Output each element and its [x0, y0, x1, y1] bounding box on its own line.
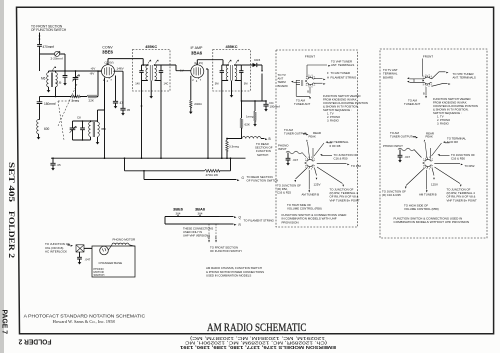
phono motor coil [108, 243, 135, 250]
label to terminal 6 right box [432, 137, 467, 157]
svg-text:1: 1 [305, 159, 306, 161]
wire 180mmf down [39, 104, 41, 120]
svg-text:A PHOTOFACT STANDARD NOTATION: A PHOTOFACT STANDARD NOTATION SCHEMATIC [24, 313, 146, 318]
label to junction r52 right box [382, 187, 407, 198]
svg-text:8: 8 [423, 84, 424, 86]
svg-text:3BE6: 3BE6 [102, 50, 114, 55]
switch star A1 [305, 75, 315, 89]
coils and caps of 455KC [139, 59, 163, 80]
switch star B1 [422, 74, 432, 88]
label to terminal 6 left box [314, 140, 349, 156]
wire from function switch down [39, 33, 41, 45]
svg-text:USED IN COMBINATION MODELS: USED IN COMBINATION MODELS [206, 274, 251, 278]
voltage 1V [180, 69, 185, 73]
svg-text:COUNTER-CLOCKWISE POSITION: COUNTER-CLOCKWISE POSITION [323, 101, 368, 105]
bus capacitor .05 [50, 157, 61, 170]
label G to rear section [242, 175, 279, 183]
svg-text:3: 3 [429, 157, 430, 159]
label REAR right box [426, 132, 434, 136]
svg-text:BOARD: BOARD [383, 75, 393, 79]
svg-text:3. RADIO: 3. RADIO [327, 119, 339, 123]
label to vhf tuner right box [453, 72, 476, 80]
T2 output wire [241, 64, 252, 66]
wire ant secondary down [55, 87, 57, 97]
coils and caps of 455KC [220, 59, 244, 80]
svg-text:455KC: 455KC [145, 45, 157, 49]
svg-text:3&4: 3&4 [198, 211, 203, 215]
tube V1 down wire [104, 78, 106, 159]
filament dashed drops [208, 224, 218, 243]
svg-text:TUNER OUTPUT: TUNER OUTPUT [390, 135, 413, 139]
svg-text:.05: .05 [57, 163, 61, 167]
filament line R [219, 223, 242, 227]
antenna transformer core [51, 73, 52, 88]
svg-text:(12.2V): (12.2V) [194, 61, 203, 65]
wire left bus down [39, 97, 41, 102]
svg-text:3M: 3M [244, 82, 248, 86]
svg-text:2: 2 [308, 75, 309, 77]
svg-text:1. TV: 1. TV [327, 112, 334, 116]
label am radio chassis note [206, 266, 264, 278]
bus line y171 [124, 157, 232, 170]
label phono input right box [383, 144, 403, 148]
svg-text:6: 6 [312, 87, 313, 89]
label PEAK left box [306, 135, 316, 159]
svg-text:3: 3 [429, 74, 430, 76]
svg-text:3M: 3M [215, 82, 219, 86]
svg-text:VOLUME CONTROL (R58): VOLUME CONTROL (R58) [287, 207, 322, 211]
svg-text:TUNER ANT: TUNER ANT [294, 102, 310, 106]
label FRONT right box [423, 55, 433, 59]
label 125V left box [314, 178, 321, 187]
svg-text:2. PHONO: 2. PHONO [437, 118, 450, 122]
svg-text:TO FILAMENT STRING: TO FILAMENT STRING [244, 218, 275, 222]
svg-text:& SHOWN IN TV POSITION.: & SHOWN IN TV POSITION. [433, 108, 469, 112]
phono motor circle [100, 246, 109, 255]
label to rear section of function switch [255, 142, 273, 157]
svg-text:B: B [423, 92, 425, 96]
label to vhf tuner left box [331, 59, 354, 67]
diode CR3 [253, 58, 263, 72]
right switch dashed box [380, 49, 487, 238]
wire V1 plate to T1 [108, 59, 144, 66]
svg-text:TO AM TUNER: TO AM TUNER [331, 71, 350, 75]
wire to R52 left box [317, 164, 362, 168]
label to front section of function switch [31, 25, 67, 33]
svg-text:2: 2 [425, 74, 426, 76]
T2 center ground [230, 94, 234, 98]
label REAR left box [313, 131, 321, 135]
svg-text:FOLDER 2: FOLDER 2 [7, 211, 16, 258]
svg-text:7: 7 [308, 169, 309, 171]
label function switch with uhf [282, 213, 348, 225]
switch star A2 [305, 157, 315, 171]
antenna slug arrow [52, 66, 56, 71]
label phono motor [113, 238, 136, 242]
svg-text:6 OF R8: 6 OF R8 [447, 140, 458, 144]
osc gang capacitor B [70, 121, 77, 140]
star A2 down wires [296, 167, 343, 190]
svg-text:B: B [269, 137, 271, 141]
svg-text:(R) C16 & R25: (R) C16 & R25 [382, 193, 401, 197]
trimmer capacitor 2-20mmf [51, 51, 63, 61]
svg-text:FOLDER 2: FOLDER 2 [19, 338, 52, 347]
svg-text:OF FUNCTION SWITCH: OF FUNCTION SWITCH [247, 179, 279, 183]
svg-text:C16 & R50: C16 & R50 [334, 157, 348, 161]
switch star B2 [423, 157, 433, 171]
label to junction r52 left box [277, 180, 301, 195]
label to front section 2 [210, 246, 242, 254]
label to tv ant right box [383, 68, 398, 79]
label phono motor switch [94, 267, 105, 277]
svg-text:3. RADIO: 3. RADIO [437, 122, 449, 126]
avc bus wire y96.5 [40, 96, 99, 98]
wire star A1 to front [306, 65, 308, 77]
label to am tuner output left box [284, 128, 309, 136]
ground below coil 600 [37, 120, 41, 140]
star B1 arrows to tv ant [407, 77, 424, 82]
cap 047 left box [286, 153, 299, 166]
ground below ant primary [47, 87, 51, 93]
svg-text:PROVISION: PROVISION [282, 220, 299, 224]
svg-text:AM TUNER B: AM TUNER B [419, 193, 437, 197]
svg-text:TO R52: TO R52 [351, 164, 361, 168]
svg-text:1: 1 [423, 159, 424, 161]
svg-text:AC INTERLOCK: AC INTERLOCK [45, 250, 67, 254]
svg-text:(6.8): (6.8) [56, 81, 62, 85]
svg-text:FILAMENT STRING: FILAMENT STRING [331, 76, 357, 80]
antenna transformer secondary coil [56, 73, 62, 87]
det wire down [242, 74, 267, 102]
svg-text:FUNCTION SWITCH VIEWED: FUNCTION SWITCH VIEWED [433, 97, 470, 101]
svg-text:PAGE 7: PAGE 7 [1, 310, 10, 335]
osc wires top [73, 120, 98, 122]
svg-text:62K: 62K [245, 123, 251, 127]
svg-text:FROM KNOB END IN MAX.: FROM KNOB END IN MAX. [433, 101, 467, 105]
svg-text:3&4: 3&4 [176, 211, 181, 215]
label 3BE6 filament [173, 207, 184, 216]
svg-text:SWITCH: SWITCH [257, 153, 268, 157]
wire star A2 up [312, 148, 314, 158]
star B1 down wire B [423, 87, 427, 98]
left switch dashed box [276, 50, 358, 227]
fixed capacitor at ant [63, 71, 68, 86]
osc transformer secondary coil [98, 122, 107, 136]
tube V1 pin numbers [103, 79, 112, 83]
V1 cathode capacitor .05 [114, 71, 131, 115]
voltage -6V [91, 67, 97, 71]
svg-text:455KC: 455KC [226, 45, 238, 49]
label 3BA6 filament [195, 207, 206, 216]
V2 plate wire to T2 [197, 60, 223, 65]
svg-text:6: 6 [311, 169, 312, 171]
svg-text:CR3: CR3 [254, 58, 260, 62]
svg-text:1. TV: 1. TV [437, 115, 444, 119]
shielded cable left box [286, 151, 307, 157]
svg-text:22K: 22K [89, 98, 95, 102]
svg-text:ANT. TERMINALS: ANT. TERMINALS [331, 63, 354, 67]
svg-text:SWITCH SEQUENCE :: SWITCH SEQUENCE : [433, 111, 462, 115]
voltage 146V [117, 67, 125, 71]
label FRONT left box [305, 55, 315, 59]
changer base box [92, 246, 135, 277]
left box viewed text [323, 94, 368, 123]
svg-text:B: B [215, 236, 217, 240]
wire cap down to coil [39, 46, 41, 71]
svg-text:470Ω 1W: 470Ω 1W [206, 173, 219, 177]
voltage -8V [90, 72, 96, 76]
label 125V right box [431, 178, 438, 187]
svg-text:EMERSON MODELS 1376, 1377, 138: EMERSON MODELS 1376, 1377, 1380, 1389, 1… [179, 345, 336, 350]
T1 center ground [149, 95, 153, 99]
avc resistor 3.3meg [226, 138, 240, 159]
shielded cable right box [398, 148, 422, 157]
svg-text:(12.6V): (12.6V) [104, 60, 113, 64]
svg-text:H: H [327, 76, 329, 80]
label to junction ac interlock [45, 242, 70, 254]
resistor 2meg [71, 95, 80, 102]
svg-text:AM RADIO SCHEMATIC: AM RADIO SCHEMATIC [207, 322, 307, 334]
avc to grid wire [55, 70, 99, 97]
osc transformer primary coil [89, 122, 91, 136]
V2 grid resistor 240 [189, 76, 202, 114]
svg-text:3BA6: 3BA6 [195, 207, 206, 212]
label these connections [183, 227, 213, 238]
T1 bottom wires [135, 81, 168, 159]
svg-text:4: 4 [431, 76, 432, 78]
svg-text:3: 3 [312, 75, 313, 77]
svg-text:CHANGER BASE: CHANGER BASE [99, 261, 123, 265]
main bus y158 [51, 157, 246, 159]
svg-text:7: 7 [308, 87, 309, 89]
svg-text:INPUT: INPUT [278, 147, 287, 151]
svg-text:.047: .047 [405, 155, 411, 159]
star A1 down wire B [296, 84, 311, 99]
T1 output wire [161, 65, 191, 71]
svg-text:VHF TUNER B+ POINT: VHF TUNER B+ POINT [447, 198, 477, 202]
label to am tuner output right box [390, 131, 418, 139]
svg-text:3BE6: 3BE6 [173, 207, 184, 212]
right box viewed text [433, 97, 478, 126]
avc resistor 62K [240, 100, 251, 138]
label function switch without uhf [394, 216, 470, 224]
label to am tuner ant right box [404, 99, 420, 107]
svg-text:C16 & R25: C16 & R25 [277, 191, 291, 195]
svg-text:4: 4 [314, 77, 315, 79]
svg-text:1: 1 [423, 76, 424, 78]
wire V1 grid [98, 70, 102, 72]
osc wires bottom [73, 137, 100, 145]
svg-text:2meg: 2meg [72, 98, 80, 102]
star B1 arrows to vhf [432, 72, 451, 87]
svg-text:100mmf: 100mmf [270, 104, 281, 108]
svg-text:140: 140 [135, 82, 140, 86]
label to junction c16 right box [438, 153, 476, 161]
svg-text:.047: .047 [85, 258, 91, 262]
osc top to tube wire [98, 78, 105, 122]
svg-text:SWITCH: SWITCH [94, 273, 105, 277]
label to high side left box [287, 203, 322, 211]
label to junction r52 t4 left box [330, 185, 360, 203]
svg-text:SET 405: SET 405 [7, 162, 16, 202]
label to junction r52 t4 right box [447, 185, 477, 203]
capacitor 180mmf [37, 102, 56, 106]
svg-text:350: 350 [101, 127, 106, 131]
svg-text:146V: 146V [117, 67, 125, 71]
star A1 arrow F am tuner [314, 71, 350, 80]
svg-text:TUNER ANT: TUNER ANT [404, 102, 420, 106]
svg-text:OF FUNCTION SWITCH: OF FUNCTION SWITCH [31, 28, 67, 32]
oscillator padder coil 600 [37, 120, 50, 134]
svg-text:4: 4 [314, 159, 315, 161]
capacitor 047 phono [77, 257, 91, 264]
svg-text:REAR: REAR [313, 131, 321, 135]
svg-text:IF AMP: IF AMP [191, 46, 203, 50]
svg-text:TO R52: TO R52 [465, 164, 475, 168]
svg-text:(Ch. 120289R, MC, 120289M, MC,: (Ch. 120289R, MC, 120289M, MC, 120290H, … [185, 340, 327, 345]
svg-text:COUNTER-CLOCKWISE POSITION: COUNTER-CLOCKWISE POSITION [433, 104, 478, 108]
svg-text:OF FUNCTION SWITCH: OF FUNCTION SWITCH [210, 249, 242, 253]
svg-text:120291M, MC, 120384M, MC, 1203: 120291M, MC, 120384M, MC, 120387M, MC) [189, 336, 325, 341]
svg-text:FRONT: FRONT [305, 55, 315, 59]
svg-text:6: 6 [429, 169, 430, 171]
resistor 22K [87, 95, 97, 102]
svg-text:FRONT: FRONT [423, 55, 433, 59]
svg-text:2. PHONO: 2. PHONO [327, 115, 340, 119]
svg-text:PEAK: PEAK [426, 135, 434, 139]
svg-text:.05: .05 [126, 108, 130, 112]
tube V1 CONV 3BE6 [102, 46, 115, 79]
svg-text:COMBINATION MODELS WITHOUT UHF: COMBINATION MODELS WITHOUT UHF PROVISION [394, 220, 470, 224]
svg-text:C16 & R50: C16 & R50 [451, 157, 465, 161]
svg-text:125V: 125V [314, 182, 321, 186]
det resistor 1meg [246, 100, 257, 126]
svg-text:SWITCH SEQUENCE :: SWITCH SEQUENCE : [323, 108, 352, 112]
label to am tuner ant left box [294, 99, 310, 107]
svg-text:8: 8 [306, 85, 307, 87]
osc dashed outline [58, 101, 77, 140]
gang dashed link [58, 84, 77, 126]
label to filament string [244, 218, 275, 222]
svg-text:VOLUME CONTROL (R58): VOLUME CONTROL (R58) [404, 207, 439, 211]
svg-text:125V: 125V [431, 182, 438, 186]
label phono input left box [278, 143, 289, 151]
svg-text:3: 3 [311, 157, 312, 159]
label to junction c16 left box [320, 153, 358, 161]
filament string box [165, 215, 219, 224]
IF transformer box 455KC [213, 45, 251, 91]
svg-text:4: 4 [432, 159, 433, 161]
star A1 arrow H filament [314, 76, 357, 85]
capacitor 47 at V1 [113, 76, 123, 109]
svg-text:FROM KNOB END IN MAX.: FROM KNOB END IN MAX. [323, 98, 357, 102]
svg-text:& SHOWN IN TV POSITION.: & SHOWN IN TV POSITION. [323, 105, 359, 109]
svg-text:180mmf: 180mmf [44, 102, 56, 106]
svg-text:600: 600 [44, 127, 50, 131]
label to tv ant left box [278, 73, 288, 88]
tube V2 IF AMP 3BA6 [191, 46, 204, 79]
svg-text:VHF TUNER B+ POINT: VHF TUNER B+ POINT [330, 198, 360, 202]
tuning gang capacitor A [72, 71, 80, 97]
IF transformer box 455KC [133, 45, 171, 91]
svg-text:2-20mmf: 2-20mmf [51, 56, 63, 60]
wire star B2 up [424, 135, 433, 159]
wire star B1 to front [421, 59, 423, 77]
svg-text:M6: M6 [41, 77, 46, 81]
svg-text:240Ω: 240Ω [194, 102, 202, 106]
label changer base [99, 261, 123, 265]
svg-text:1: 1 [306, 77, 307, 79]
interlock wires [80, 248, 93, 257]
svg-text:1meg: 1meg [246, 115, 254, 119]
svg-text:6 OF R8: 6 OF R8 [330, 144, 341, 148]
det cap DC 100mmf [263, 100, 280, 111]
star A1 arrows to tv ant [291, 80, 304, 86]
grid line y71 [49, 70, 102, 72]
svg-text:UHF-VHF VERSIONS: UHF-VHF VERSIONS [183, 234, 210, 238]
label am tuner b right box [419, 190, 437, 196]
osc transformer core [93, 122, 94, 137]
svg-text:C8: C8 [77, 116, 81, 120]
svg-text:PEAK: PEAK [309, 135, 317, 139]
svg-text:6: 6 [429, 86, 430, 88]
svg-text:PHONO INPUT: PHONO INPUT [383, 144, 403, 148]
bus line y180 [143, 170, 239, 181]
scanner edge strip [0, 0, 4, 353]
antenna transformer primary coil [41, 73, 49, 87]
svg-text:BOARD: BOARD [278, 84, 288, 88]
resistor 470 ohm [205, 169, 220, 176]
svg-text:USED ONLY IN: USED ONLY IN [183, 230, 202, 234]
svg-text:2: 2 [308, 157, 309, 159]
svg-text:AM TUNER B: AM TUNER B [302, 193, 320, 197]
svg-text:3BA6: 3BA6 [191, 51, 203, 56]
svg-text:470mmf: 470mmf [43, 45, 55, 49]
cap 047 right box [398, 150, 411, 163]
label to high side right box [404, 203, 439, 211]
filament line Q [219, 215, 242, 219]
svg-text:PHONO MOTOR: PHONO MOTOR [113, 238, 136, 242]
tube V2 pin numbers [192, 79, 201, 83]
svg-text:B: B [307, 90, 309, 94]
star B2 down wires [406, 167, 460, 190]
svg-text:14C: 14C [164, 82, 169, 86]
interlock arrow [68, 245, 74, 247]
T2 bottom wires [215, 81, 248, 159]
svg-text:5: 5 [314, 85, 315, 87]
svg-text:ANT. TERMINALS: ANT. TERMINALS [453, 76, 476, 80]
osc fixed capacitor C8 [77, 116, 85, 141]
svg-text:.047: .047 [293, 158, 299, 162]
svg-text:3.3meg: 3.3meg [229, 145, 239, 149]
choke to B [227, 137, 271, 141]
label am tuner b left box [302, 190, 320, 196]
svg-text:FUNCTION SWITCH VIEWED: FUNCTION SWITCH VIEWED [323, 94, 360, 98]
V2 cathode down wire [206, 69, 208, 158]
capacitor 470mmf [37, 45, 54, 50]
trimmer branch wire [40, 54, 66, 71]
star A1 arrow to vhf [307, 65, 331, 67]
interlock plug [76, 245, 84, 252]
wire to R52 right box [434, 164, 475, 168]
